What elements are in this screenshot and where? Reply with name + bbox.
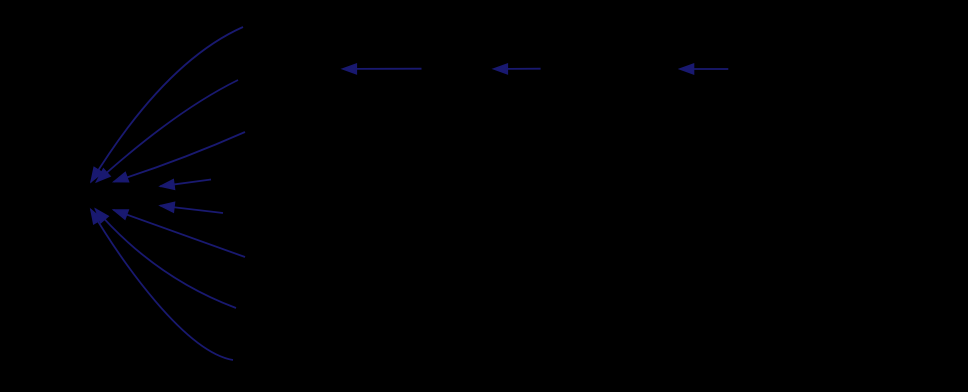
edge arrow D3 bbox=[113, 210, 245, 257]
edge arrow D2 bbox=[95, 209, 236, 308]
edge arrow A1 bbox=[342, 64, 421, 74]
edge arrow C1 bbox=[91, 27, 243, 182]
edge arrow A4 bbox=[160, 179, 211, 189]
edge arrow A3 bbox=[680, 64, 729, 74]
edge arrow C3 bbox=[114, 132, 245, 182]
edge arrow D1 bbox=[91, 209, 233, 360]
edge arrow A2 bbox=[493, 64, 540, 74]
edge arrow A5 bbox=[160, 202, 223, 213]
edge arrow C2 bbox=[96, 80, 238, 182]
